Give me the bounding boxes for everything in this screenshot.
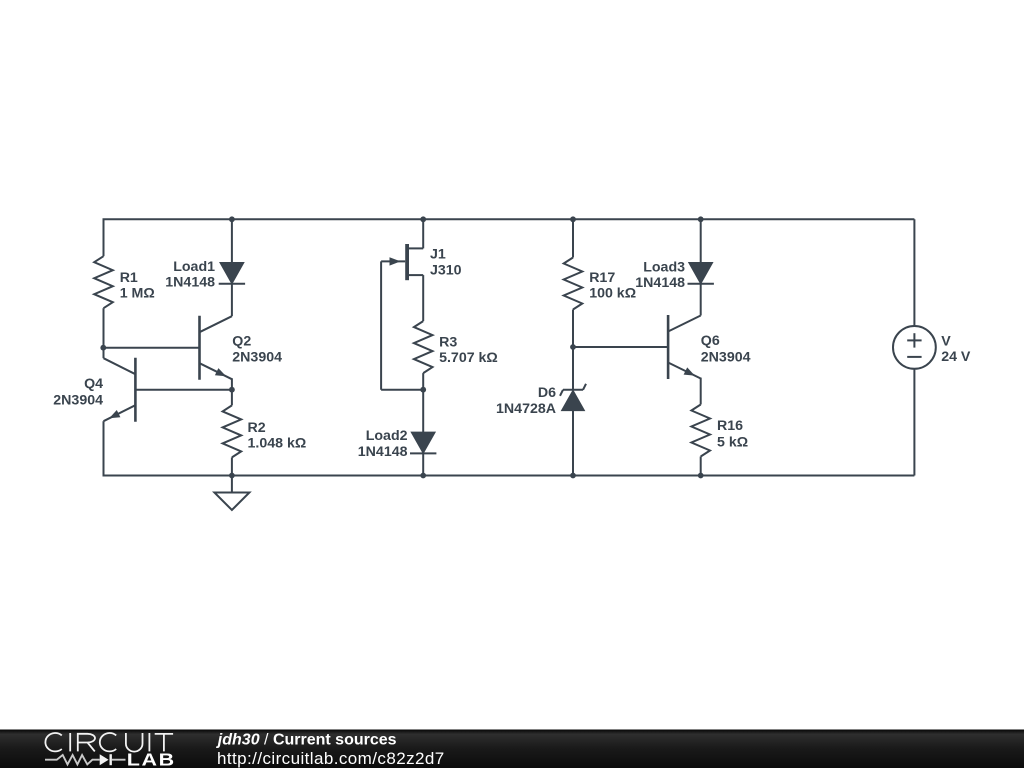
svg-text:2N3904: 2N3904 [232,349,282,365]
wire R3 bottom to node C [422,373,424,390]
wire bottom ground rail [103,475,915,477]
ground symbol [231,476,233,493]
wire Q4 collector up to node A [103,348,105,359]
node D6 bottom rail junction [570,473,576,479]
wire J1 source to R3 [422,275,424,321]
wire top supply rail [103,218,915,220]
svg-text:1N4148: 1N4148 [165,274,215,290]
wire Q2 base [104,347,200,349]
wire left branch top [103,219,105,256]
svg-text:5.707 kΩ: 5.707 kΩ [439,350,498,366]
node R2 bottom rail junction [229,473,235,479]
node R17 top rail junction [570,216,576,222]
svg-text:1N4148: 1N4148 [635,275,685,291]
diode Load2 1N4148 [411,432,435,453]
svg-text:R16: R16 [717,418,743,434]
svg-text:1N4728A: 1N4728A [496,401,556,417]
svg-text:R2: R2 [248,420,266,436]
wire Q2 emitter down to node B [231,378,233,389]
wire Q2 collector up to Load1 [231,284,233,316]
diode Load1 1N4148 [231,219,233,263]
transistor Q4 2N3904 (mirrored) [134,358,137,422]
svg-text:J1: J1 [430,246,446,262]
logo CIRCUIT word [45,733,173,752]
wire Q6 emitter to R16 [700,378,702,405]
svg-text:100 kΩ: 100 kΩ [589,286,636,302]
voltage source V 24 V [893,326,936,369]
svg-text:Q4: Q4 [84,376,103,392]
svg-text:R3: R3 [439,334,457,350]
node Load3 top rail junction [698,216,704,222]
svg-text:http://circuitlab.com/c82z2d7: http://circuitlab.com/c82z2d7 [217,749,445,768]
resistor R16 5 kΩ [691,405,710,457]
node J1 drain top rail junction [420,216,426,222]
wire R1 bottom to node A [103,308,105,348]
wire R2 bottom [231,457,233,475]
node C (R3 / gate / Load2) [420,387,426,393]
wire R17 top [572,219,574,257]
wire V source bottom [913,369,915,476]
svg-text:1.048 kΩ: 1.048 kΩ [248,436,307,452]
diode Load3 1N4148 [689,263,713,284]
wire R16 bottom [700,457,702,476]
svg-text:Load1: Load1 [173,259,215,275]
resistor R2 1.048 kΩ [223,405,242,457]
wire J1 gate [381,260,405,262]
logo resistor-diode symbol [45,755,100,764]
svg-text:jdh30 / Current sources: jdh30 / Current sources [216,731,397,748]
wire Load2 bottom [422,453,424,475]
svg-text:R1: R1 [120,270,138,286]
wire node B to R2 [231,390,233,406]
svg-text:D6: D6 [538,385,556,401]
svg-text:1 MΩ: 1 MΩ [120,286,155,302]
svg-text:2N3904: 2N3904 [701,349,751,365]
wire Load3 to Q6 collector [700,284,702,316]
node R16 bottom rail junction [698,473,704,479]
wire Load3 top [700,219,702,263]
resistor R17 100 kΩ [564,258,583,310]
wire node C to Load2 [422,390,424,433]
svg-text:Load2: Load2 [366,428,408,444]
svg-text:R17: R17 [589,270,615,286]
transistor Q2 2N3904 [198,316,201,380]
wire node D down to D6 [572,347,574,390]
wire Q4 base [135,389,232,391]
wire V source top [913,219,915,326]
node Load2 bottom rail junction [420,473,426,479]
diode D6 zener 1N4728A [563,389,583,391]
svg-text:24 V: 24 V [941,349,971,365]
svg-text:LAB: LAB [127,750,176,768]
node A (R1 / Q2 base / Q4 collector) [100,345,106,351]
wire J1 drain [422,219,424,248]
wire D6 bottom [572,411,574,476]
wire gate feedback loop [380,261,382,389]
svg-text:1N4148: 1N4148 [358,444,408,460]
node D (R17 / D6 / Q6 base) [570,344,576,350]
transistor J1 J310 (N-JFET) [405,244,409,280]
wire Q4 emitter down to bottom rail [103,421,105,475]
svg-text:2N3904: 2N3904 [53,392,103,408]
transistor Q6 2N3904 [667,315,670,379]
svg-text:Load3: Load3 [643,260,685,276]
svg-text:J310: J310 [430,262,462,278]
node B (Q2 emitter / Q4 base / R2) [229,387,235,393]
svg-text:Q2: Q2 [232,333,251,349]
wire R17 bottom to node D [572,310,574,348]
svg-text:5 kΩ: 5 kΩ [717,434,748,450]
resistor R1 [94,256,113,308]
svg-text:V: V [941,334,951,350]
node Load1 top rail junction [229,216,235,222]
svg-text:Q6: Q6 [701,333,720,349]
resistor R3 5.707 kΩ [414,321,433,373]
wire Q6 base [573,346,668,348]
